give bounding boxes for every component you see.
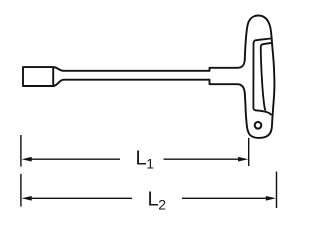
hanging hole bbox=[255, 122, 262, 129]
L2 left arrowhead bbox=[22, 196, 32, 201]
L1 dimension line right segment bbox=[164, 158, 240, 160]
svg-text:L: L bbox=[148, 189, 159, 211]
L1 left arrowhead bbox=[22, 157, 32, 162]
L2 dimension line right segment bbox=[182, 197, 267, 199]
svg-text:L: L bbox=[136, 148, 147, 170]
svg-text:1: 1 bbox=[146, 156, 154, 172]
L1 right arrowhead bbox=[238, 157, 248, 162]
L2 right extension line bbox=[276, 172, 278, 209]
L1 dimension line left segment bbox=[31, 158, 121, 160]
L2 right arrowhead bbox=[266, 196, 276, 201]
tool outline: socket head, shaft, collar and T-handle silhouette bbox=[23, 16, 274, 138]
grip inlay outer contour bbox=[253, 38, 272, 115]
L2 dimension line left segment bbox=[31, 197, 133, 199]
L1 right extension line bbox=[248, 138, 250, 166]
svg-text:2: 2 bbox=[158, 197, 166, 213]
L2 left extension line bbox=[20, 174, 22, 207]
socket head right edge bbox=[52, 67, 54, 86]
L1 left extension line bbox=[20, 135, 22, 167]
grip inlay inner contour bbox=[261, 43, 273, 111]
